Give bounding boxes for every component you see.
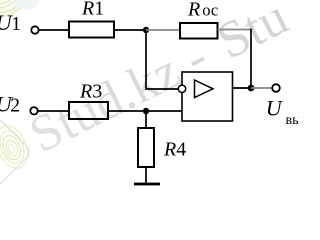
watermark: top-left pale arcs logo [0, 0, 34, 18]
svg-text:Rос: Rос [187, 0, 218, 21]
op-amp triangle symbol [195, 80, 214, 98]
svg-text:U: U [266, 96, 284, 121]
wire U1 terminal to R1 [39, 29, 69, 31]
node C junction [143, 108, 149, 114]
resistor R3 [69, 102, 108, 119]
resistor R4 [138, 128, 154, 167]
node B junction [248, 85, 255, 92]
ground bar [134, 183, 160, 186]
input terminal U1 [31, 26, 38, 33]
resistor Roc [180, 23, 218, 39]
output terminal [272, 84, 280, 92]
wire R3 to op-amp noninverting input [109, 110, 183, 112]
watermark: bottom-left white card [0, 110, 32, 195]
node A junction [143, 27, 149, 33]
svg-text:вых: вых [286, 113, 300, 128]
op-amp U1 body [182, 72, 233, 121]
input terminal U2 [30, 107, 37, 114]
wire R4 to ground [145, 167, 147, 183]
wire node B to output terminal (gray) [251, 87, 272, 89]
wire op-amp output to node B [232, 87, 251, 89]
svg-text:R1: R1 [81, 0, 104, 20]
resistor R1 [69, 22, 114, 38]
op-amp inversion bubble [178, 85, 185, 92]
wire node A to Roc (gray) [146, 29, 180, 31]
wire R1 to node A [114, 29, 146, 31]
wire node A down to inverting input [146, 32, 178, 89]
wire Roc to feedback corner (gray) [218, 29, 252, 31]
svg-text:R3: R3 [79, 81, 102, 103]
wire feedback vertical [250, 29, 252, 88]
wire U2 terminal to R3 [38, 110, 69, 112]
svg-text:U2: U2 [0, 91, 20, 116]
svg-text:U1: U1 [0, 10, 21, 35]
wire node C down to R4 [145, 111, 147, 128]
watermark: bottom-left lime swirl [0, 121, 33, 172]
svg-text:R4: R4 [163, 139, 186, 161]
watermark: top-left pale blue wash [13, 0, 39, 9]
